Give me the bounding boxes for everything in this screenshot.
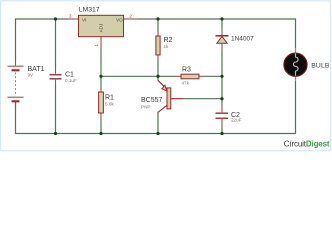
svg-text:ADJ: ADJ	[99, 24, 104, 33]
junction bottom rail / C2	[220, 132, 223, 135]
svg-text:0.1uF: 0.1uF	[65, 78, 77, 83]
junction top rail / diode	[220, 17, 223, 20]
svg-text:R1: R1	[105, 95, 114, 102]
lamp BULB	[284, 48, 330, 81]
wire LM317 ADJ pin to mid node	[100, 48, 102, 76]
svg-text:47k: 47k	[182, 81, 190, 86]
svg-text:LM317: LM317	[79, 6, 100, 13]
wire C2 bottom to bottom rail	[221, 126, 223, 134]
wire top rail right (LM317 VO to bulb)	[137, 19, 296, 48]
junction mid rail / ADJ / R1	[99, 75, 102, 78]
svg-text:R2: R2	[164, 37, 173, 44]
svg-text:22uF: 22uF	[231, 118, 242, 123]
wire mid node to transistor emitter	[157, 76, 159, 80]
junction mid rail / diode anode	[220, 75, 223, 78]
wire diode anode down to base node	[221, 50, 223, 105]
wire R2 bottom to mid node	[157, 59, 159, 76]
junction top rail / R2	[156, 17, 159, 20]
wire R1 top stub from mid node	[100, 76, 102, 87]
wire bottom rail (battery - to bulb)	[16, 81, 296, 134]
svg-text:1k: 1k	[164, 44, 170, 49]
junction mid rail / R2 / emitter	[156, 75, 159, 78]
svg-text:3: 3	[69, 14, 72, 19]
wire transistor collector to bottom rail	[157, 112, 159, 134]
junction bottom rail / C1	[54, 132, 57, 135]
svg-text:PNP: PNP	[141, 105, 150, 110]
svg-text:1N4007: 1N4007	[231, 36, 254, 43]
resistor R3	[176, 67, 205, 86]
wire mid rail (ADJ node to R3 left)	[101, 75, 176, 77]
resistor R2	[156, 32, 173, 60]
wire C1 branch lower	[55, 84, 57, 134]
wire R1 bottom to bottom rail	[100, 118, 102, 134]
svg-text:9V: 9V	[28, 73, 35, 78]
svg-text:R3: R3	[182, 67, 191, 74]
wire transistor base to diode node	[184, 98, 223, 100]
regulator U1 LM317	[68, 6, 138, 48]
wire top rail to R2	[157, 19, 159, 32]
resistor R1	[99, 87, 115, 118]
svg-text:5.6k: 5.6k	[105, 102, 114, 107]
capacitor C2	[216, 105, 242, 126]
wire C1 branch upper	[55, 19, 57, 70]
wire top rail to diode cathode	[221, 19, 223, 29]
svg-text:2: 2	[129, 14, 132, 19]
junction bottom rail / collector	[156, 132, 159, 135]
junction base / C2 node	[220, 97, 223, 100]
transistor Q1 BC557 PNP	[141, 80, 184, 112]
wire R3 right to diode branch	[205, 75, 223, 77]
diode D1 1N4007	[216, 29, 255, 50]
svg-text:VO: VO	[116, 18, 123, 23]
svg-text:VI: VI	[82, 18, 86, 23]
capacitor C1	[50, 70, 77, 85]
svg-text:BC557: BC557	[141, 97, 163, 104]
svg-text:1: 1	[94, 44, 99, 47]
battery BAT1 9V	[8, 61, 45, 107]
svg-text:BULB: BULB	[311, 62, 330, 69]
junction bottom rail / R1	[99, 132, 102, 135]
junction top rail / C1	[54, 17, 57, 20]
svg-text:CírcuitDigest: CírcuitDigest	[284, 139, 330, 148]
wire top rail left (battery + to LM317 VI)	[16, 19, 68, 61]
